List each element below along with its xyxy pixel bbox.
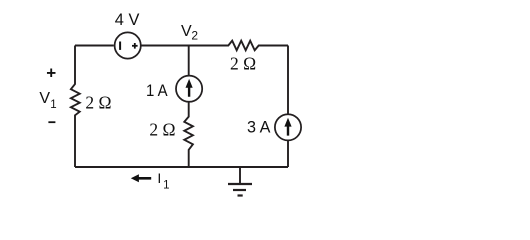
- svg-text:1: 1: [163, 180, 169, 192]
- svg-text:2: 2: [191, 29, 198, 43]
- svg-text:I: I: [157, 170, 161, 186]
- svg-text:V: V: [39, 90, 50, 107]
- svg-text:2 Ω: 2 Ω: [230, 54, 256, 74]
- svg-text:2 Ω: 2 Ω: [85, 93, 111, 113]
- svg-text:2 Ω: 2 Ω: [149, 119, 175, 139]
- svg-text:3 A: 3 A: [247, 118, 271, 137]
- svg-text:1: 1: [50, 99, 56, 111]
- svg-text:+: +: [46, 63, 56, 82]
- svg-text:4 V: 4 V: [115, 10, 140, 29]
- svg-text:1 A: 1 A: [146, 81, 168, 100]
- svg-text:V: V: [181, 23, 192, 40]
